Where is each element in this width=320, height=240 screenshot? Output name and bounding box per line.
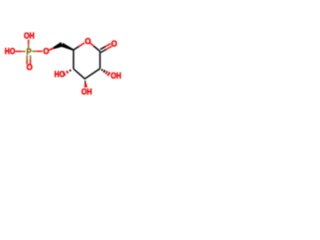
bold wedge O(ester)-C6 (48, 42, 63, 51)
bond P-O (ester) (32, 50, 42, 52)
double bond C1=O (carbonyl) (100, 44, 112, 53)
hashed wedge C4-HO (63, 70, 70, 76)
svg-text:O: O (111, 40, 117, 49)
bond C2-C3 (85, 69, 100, 79)
svg-text:HO: HO (5, 47, 16, 56)
svg-text:O: O (26, 63, 32, 72)
bond O(ring)-C1 (90, 43, 100, 51)
svg-text:O: O (85, 37, 91, 46)
svg-text:OH: OH (81, 88, 92, 97)
bond HO-P (left) (15, 50, 25, 52)
double bond P=O (below) (27, 55, 30, 64)
bond C4-C5 (73, 50, 75, 69)
bond C5-O(ring) (74, 43, 85, 50)
bond C3-C4 (74, 69, 85, 79)
bond P-OH (top) (28, 40, 30, 49)
svg-text:HO: HO (54, 70, 65, 79)
svg-text:OH: OH (111, 72, 122, 81)
svg-text:P: P (26, 47, 31, 56)
bond C1-C2 (99, 51, 101, 68)
bold wedge C5-C6 (61, 43, 74, 51)
svg-text:O: O (43, 47, 49, 56)
hashed wedge C2-OH (102, 69, 110, 76)
svg-text:OH: OH (24, 32, 35, 41)
bold wedge C3-OH (84, 79, 87, 87)
